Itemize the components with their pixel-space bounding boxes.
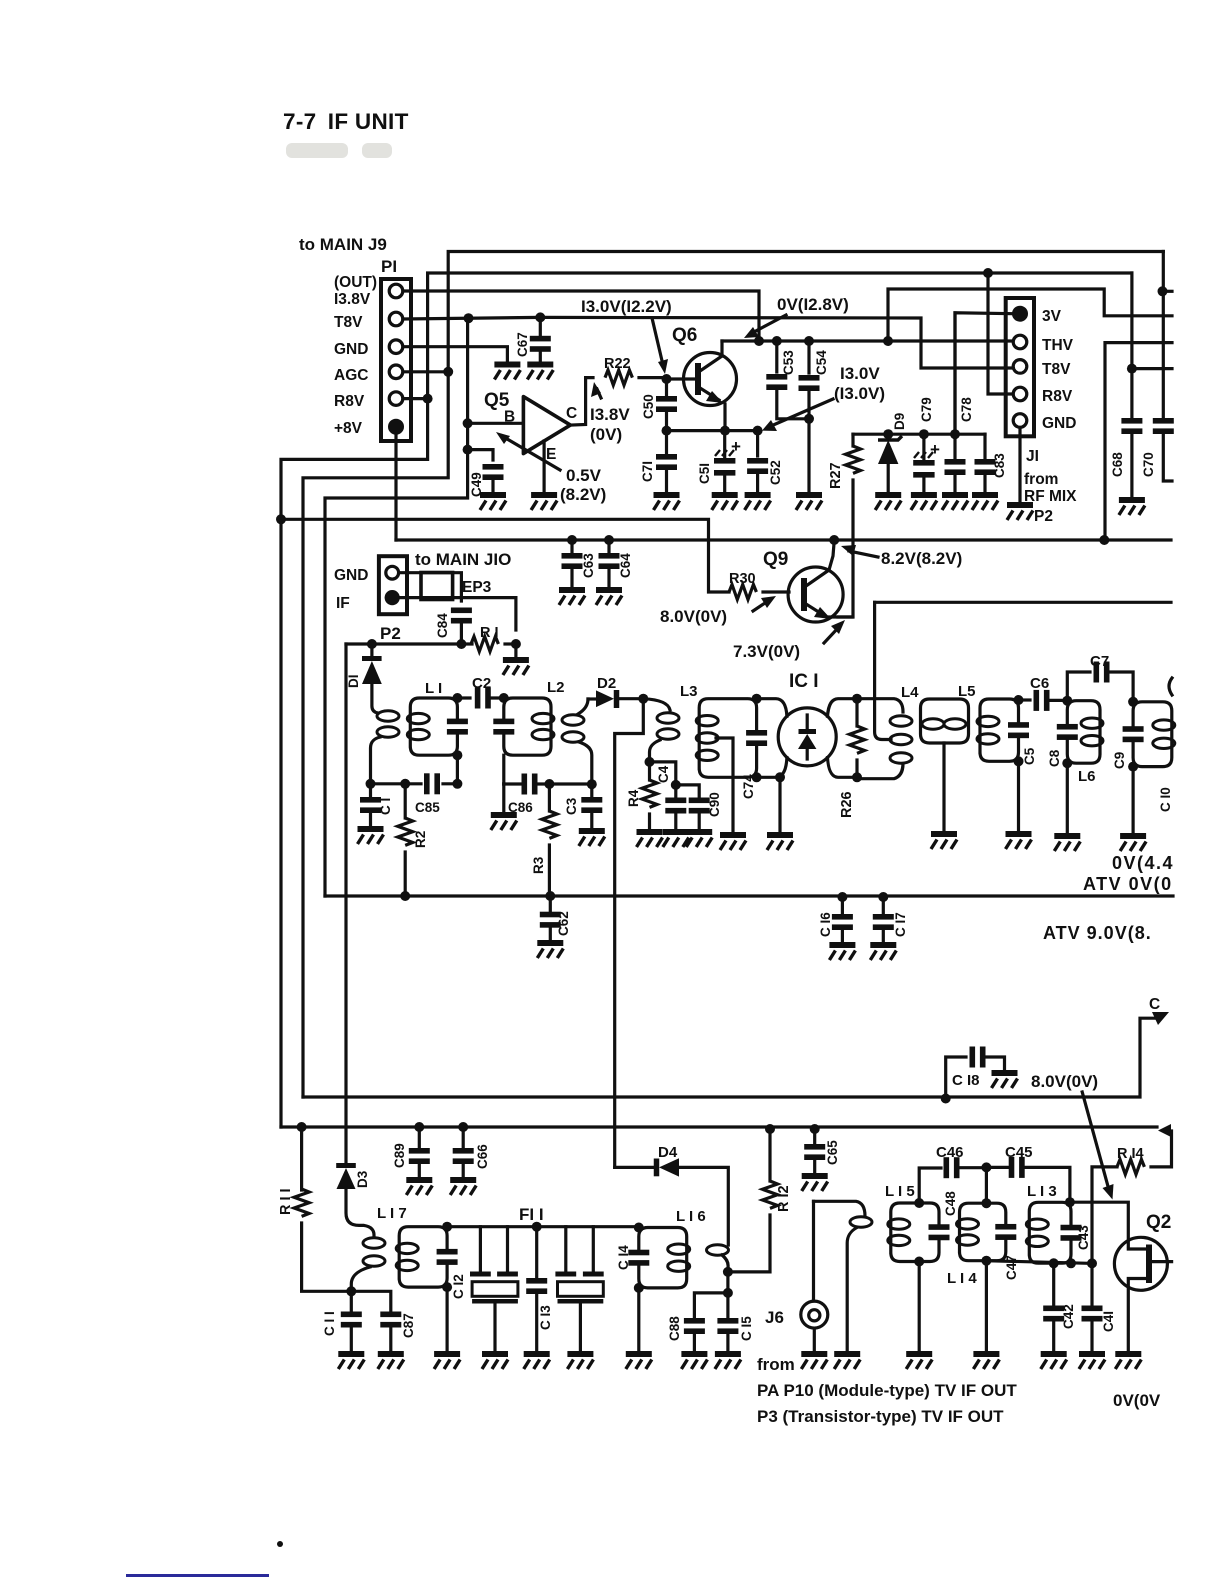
capacitor C90 bbox=[676, 785, 699, 798]
svg-text:8.0V(0V): 8.0V(0V) bbox=[1031, 1072, 1098, 1091]
svg-text:0V(0V: 0V(0V bbox=[1113, 1391, 1161, 1410]
capacitor C83 bbox=[983, 434, 986, 460]
svg-text:(8.2V): (8.2V) bbox=[560, 485, 606, 504]
svg-text:R8V: R8V bbox=[1042, 388, 1073, 405]
wire R8V lower bus line bbox=[281, 1125, 1157, 1128]
capacitor C53 bbox=[775, 341, 778, 372]
connector J6 bbox=[812, 1201, 815, 1301]
svg-text:C84: C84 bbox=[435, 613, 450, 638]
svg-text:C88: C88 bbox=[667, 1316, 682, 1341]
F11 resonator 1 bbox=[480, 1227, 507, 1271]
bus line1 top (AGC net) bbox=[448, 252, 1163, 372]
inductor L4 winding bbox=[857, 699, 903, 779]
svg-text:Q2: Q2 bbox=[1146, 1212, 1171, 1233]
capacitor C62 bbox=[549, 896, 552, 912]
wire Q5 output to R22 bbox=[570, 378, 593, 426]
resistor R11 bbox=[297, 1122, 307, 1132]
ground tap below IC1 left bbox=[778, 777, 781, 832]
node dot AGC bus bbox=[443, 367, 453, 377]
svg-text:D3: D3 bbox=[355, 1170, 370, 1188]
transformer L3 tank with C74 bbox=[699, 699, 756, 778]
svg-text:P3 (Transistor-type) TV IF OUT: P3 (Transistor-type) TV IF OUT bbox=[757, 1407, 1004, 1426]
svg-text:C62: C62 bbox=[556, 911, 571, 936]
diode D1 bbox=[370, 644, 373, 656]
P1 pin 2 T8V bbox=[389, 312, 403, 326]
capacitor C79 electrolytic bbox=[922, 434, 925, 460]
P1 pin 1 (OUT)13.8V bbox=[389, 284, 403, 298]
svg-text:E: E bbox=[546, 446, 556, 463]
svg-text:L I 7: L I 7 bbox=[377, 1205, 407, 1222]
svg-text:I3.0V(I2.2V): I3.0V(I2.2V) bbox=[581, 297, 672, 316]
svg-text:C53: C53 bbox=[781, 350, 796, 375]
wire C49 branch bbox=[468, 450, 493, 460]
svg-text:C4: C4 bbox=[656, 765, 671, 783]
bus line2 (R8V net) bbox=[428, 273, 1132, 399]
svg-text:R22: R22 bbox=[604, 356, 631, 372]
svg-text:I3.0V: I3.0V bbox=[840, 364, 880, 383]
svg-text:+: + bbox=[731, 437, 741, 456]
diode D2 bbox=[596, 690, 614, 707]
svg-text:C89: C89 bbox=[392, 1143, 407, 1168]
svg-text:C4I: C4I bbox=[1101, 1311, 1116, 1332]
capacitor C89 bbox=[414, 1122, 424, 1132]
wire IF pin through EP3 bbox=[400, 598, 516, 630]
svg-text:J6: J6 bbox=[765, 1308, 784, 1327]
svg-text:L I 6: L I 6 bbox=[676, 1208, 706, 1225]
capacitor C78 bbox=[953, 313, 956, 460]
svg-text:FI I: FI I bbox=[519, 1205, 544, 1224]
svg-text:PI: PI bbox=[381, 257, 397, 276]
L1 primary coil bbox=[377, 711, 399, 721]
node dot T8V/B-bus bbox=[464, 313, 474, 323]
svg-text:L6: L6 bbox=[1078, 768, 1096, 785]
wire L2 to D2 bbox=[588, 697, 596, 700]
ground bus bottom of IF row bbox=[325, 894, 1173, 897]
wire gate line to Q2 bbox=[1070, 1202, 1128, 1246]
L15 primary coil bbox=[814, 1201, 866, 1216]
capacitor C68 bbox=[1130, 273, 1133, 417]
svg-text:R I I: R I I bbox=[278, 1188, 294, 1215]
svg-text:C: C bbox=[1149, 996, 1160, 1013]
svg-text:L2: L2 bbox=[547, 679, 565, 696]
connector J1 body bbox=[1006, 298, 1034, 436]
transformer L6 tank with C8 bbox=[1067, 701, 1100, 764]
capacitor C3 bbox=[590, 784, 593, 797]
capacitor C17 bbox=[882, 897, 885, 914]
svg-text:C87: C87 bbox=[401, 1313, 416, 1338]
wire GND pin through EP3 bbox=[399, 573, 461, 601]
transformer tank with C5 bbox=[980, 699, 1019, 761]
svg-text:R I2: R I2 bbox=[776, 1185, 792, 1212]
svg-text:ATV 9.0V(8.: ATV 9.0V(8. bbox=[1043, 923, 1152, 943]
svg-text:to MAIN J9: to MAIN J9 bbox=[299, 235, 387, 254]
capacitor C50 bbox=[665, 379, 668, 396]
svg-text:C70: C70 bbox=[1141, 452, 1156, 477]
transistor Q9 bbox=[788, 567, 843, 622]
svg-text:D2: D2 bbox=[597, 675, 616, 692]
P1 pin 5 R8V bbox=[389, 392, 403, 406]
svg-text:R30: R30 bbox=[729, 571, 756, 587]
capacitor C67 bbox=[539, 317, 542, 335]
capacitor C7 bbox=[1067, 672, 1090, 701]
svg-text:+8V: +8V bbox=[334, 420, 363, 437]
svg-text:C: C bbox=[566, 405, 577, 422]
svg-text:D9: D9 bbox=[892, 413, 907, 430]
partial coil at right edge bbox=[1169, 678, 1172, 695]
wire L4 center tap to output line bbox=[875, 602, 891, 739]
resistor R1 bbox=[346, 642, 472, 645]
capacitor C46 bbox=[919, 1168, 941, 1203]
capacitor C1 bbox=[369, 784, 372, 797]
svg-text:Q6: Q6 bbox=[672, 325, 697, 346]
resistor R4 bbox=[648, 762, 651, 780]
svg-text:C3: C3 bbox=[564, 797, 579, 815]
svg-text:0.5V: 0.5V bbox=[566, 466, 602, 485]
L5 ground tap bbox=[942, 743, 945, 831]
node dots L3 bbox=[752, 694, 762, 704]
L3 grounded tap bbox=[716, 738, 733, 832]
wire AGC lower bus line bbox=[303, 1018, 1156, 1097]
J1 pin 3V (filled) bbox=[1012, 306, 1028, 322]
svg-text:C I4: C I4 bbox=[616, 1245, 631, 1270]
svg-text:T8V: T8V bbox=[1042, 361, 1071, 378]
svg-text:C7I: C7I bbox=[640, 461, 655, 482]
J1 pin R8V bbox=[1013, 387, 1027, 401]
svg-text:C5I: C5I bbox=[697, 463, 712, 484]
svg-text:C5: C5 bbox=[1022, 747, 1037, 765]
wire pin4 AGC bbox=[403, 370, 448, 373]
svg-text:0V(I2.8V): 0V(I2.8V) bbox=[777, 295, 849, 314]
svg-text:I3.8V: I3.8V bbox=[334, 291, 371, 308]
svg-text:7.3V(0V): 7.3V(0V) bbox=[733, 642, 800, 661]
J1 pin GND bbox=[1013, 414, 1027, 428]
capacitor C13 bbox=[532, 1222, 542, 1232]
svg-text:C8: C8 bbox=[1047, 749, 1062, 767]
capacitor C15 bbox=[726, 1293, 729, 1317]
svg-text:C I8: C I8 bbox=[952, 1072, 980, 1089]
transformer L2 tank bbox=[504, 698, 551, 755]
resistor R22 bbox=[605, 370, 632, 385]
svg-text:to MAIN JIO: to MAIN JIO bbox=[415, 550, 511, 569]
svg-text:C54: C54 bbox=[814, 350, 829, 375]
svg-text:3V: 3V bbox=[1042, 308, 1062, 325]
capacitor C70 bbox=[1162, 252, 1165, 418]
wire 3V pin to C78 node bbox=[955, 313, 1013, 434]
svg-text:C66: C66 bbox=[475, 1144, 490, 1169]
capacitor C45 bbox=[986, 1166, 1008, 1169]
wire +8V pin down to 8V rail corner bbox=[394, 434, 397, 540]
L16 primary coil bbox=[679, 1167, 728, 1245]
wire pin1 13.8V out to Q6 collector riser bbox=[403, 291, 759, 341]
diode D4 bbox=[615, 1166, 654, 1169]
svg-text:Q9: Q9 bbox=[763, 549, 788, 570]
transformer tank with C9 bbox=[1133, 702, 1172, 767]
svg-text:L4: L4 bbox=[901, 684, 919, 701]
svg-text:L I 3: L I 3 bbox=[1027, 1183, 1057, 1200]
svg-text:from: from bbox=[757, 1355, 795, 1374]
capacitor C63 bbox=[570, 540, 573, 555]
svg-text:C45: C45 bbox=[1005, 1144, 1033, 1161]
svg-text:C I: C I bbox=[378, 798, 393, 815]
svg-text:R4: R4 bbox=[626, 789, 641, 807]
wire R8V bus down-left bbox=[281, 399, 428, 1127]
op-amp Q5 triangle bbox=[523, 397, 570, 454]
wire Q6 collector line 0V(12.8V) to THV bbox=[722, 339, 1013, 342]
svg-text:C83: C83 bbox=[992, 453, 1007, 478]
node dot C49 branch bbox=[463, 445, 473, 455]
transformer L15 tank with C48 bbox=[891, 1203, 939, 1262]
P2 pin IF (filled) bbox=[385, 590, 400, 605]
node dot B wire bbox=[463, 418, 473, 428]
svg-text:C6: C6 bbox=[1030, 675, 1049, 692]
capacitor C11 bbox=[350, 1291, 353, 1311]
svg-text:C67: C67 bbox=[515, 332, 530, 357]
svg-text:C64: C64 bbox=[618, 553, 633, 578]
L3 primary coil bbox=[643, 699, 670, 710]
ground rail C86/R3/C3 bbox=[504, 782, 521, 785]
node line D9/C79/C78/C83 bbox=[853, 433, 985, 436]
wire base to Q6 bbox=[667, 377, 697, 380]
node dot R22/Q6 base bbox=[662, 374, 672, 384]
svg-text:C65: C65 bbox=[825, 1140, 840, 1165]
P2 pin GND bbox=[386, 566, 399, 579]
svg-text:8.2V(8.2V): 8.2V(8.2V) bbox=[881, 549, 962, 568]
svg-text:R27: R27 bbox=[828, 462, 844, 489]
svg-text:C I7: C I7 bbox=[893, 912, 908, 937]
svg-text:GND: GND bbox=[334, 341, 368, 358]
svg-text:D4: D4 bbox=[658, 1144, 678, 1161]
capacitor C84 bbox=[451, 608, 472, 624]
arrow to C (page edge) bbox=[1152, 1012, 1169, 1025]
svg-text:C68: C68 bbox=[1110, 452, 1125, 477]
ferrite bead EP3 bbox=[421, 573, 453, 600]
P1 pin 4 AGC bbox=[389, 365, 403, 379]
svg-text:GND: GND bbox=[1042, 415, 1076, 432]
svg-text:DI: DI bbox=[346, 675, 361, 689]
IC1 bbox=[778, 708, 836, 766]
svg-text:I3.8V: I3.8V bbox=[590, 405, 630, 424]
wire pin3 GND to ground bbox=[403, 347, 507, 362]
svg-text:C7: C7 bbox=[1090, 653, 1109, 670]
arrowhead on bus end bbox=[1158, 1124, 1171, 1137]
F11 resonator 2 bbox=[566, 1227, 594, 1271]
svg-text:R8V: R8V bbox=[334, 393, 365, 410]
resistor R14 bbox=[1092, 1167, 1117, 1264]
svg-text:R26: R26 bbox=[839, 791, 855, 818]
wire right stub from THV-line corner bbox=[1105, 343, 1172, 540]
svg-text:B: B bbox=[504, 409, 515, 426]
connector P1 body bbox=[381, 279, 411, 441]
wire Q5 emitter to ground bbox=[542, 441, 545, 492]
P1 pin 6 +8V (filled) bbox=[388, 419, 404, 435]
transformer L13 tank with C43 bbox=[1029, 1202, 1071, 1263]
node dots emitter rail bbox=[662, 426, 672, 436]
svg-text:C48: C48 bbox=[943, 1191, 958, 1216]
svg-text:C I5: C I5 bbox=[739, 1316, 754, 1341]
capacitor C64 bbox=[607, 540, 610, 555]
wire pin5 R8V bbox=[403, 397, 428, 400]
svg-text:R I4: R I4 bbox=[1117, 1146, 1144, 1162]
svg-text:AGC: AGC bbox=[334, 367, 368, 384]
capacitor C42 bbox=[1049, 1258, 1059, 1268]
P1 pin 3 GND bbox=[389, 340, 403, 354]
svg-text:C2: C2 bbox=[472, 675, 491, 692]
node dot T8V/C67 bbox=[535, 312, 545, 322]
capacitor C54 bbox=[807, 341, 810, 373]
svg-text:(0V): (0V) bbox=[590, 425, 622, 444]
svg-text:L5: L5 bbox=[958, 683, 976, 700]
capacitor C49 bbox=[483, 464, 504, 480]
svg-text:L3: L3 bbox=[680, 683, 698, 700]
svg-text:C I6: C I6 bbox=[818, 912, 833, 937]
wire +8V rail (8.2V net) bbox=[396, 538, 1171, 541]
capacitor C18 bbox=[941, 1094, 951, 1104]
wire emitter rail bbox=[667, 429, 758, 432]
transformer L14 tank with C47 bbox=[960, 1203, 1006, 1261]
svg-text:EP3: EP3 bbox=[462, 579, 492, 596]
transistor Q6 bbox=[684, 353, 737, 406]
ground rail C1/C85/R2 bbox=[371, 782, 422, 785]
svg-text:0V(4.4: 0V(4.4 bbox=[1112, 853, 1174, 873]
svg-text:C50: C50 bbox=[641, 394, 656, 419]
svg-text:L I: L I bbox=[425, 680, 442, 697]
svg-text:R2: R2 bbox=[413, 831, 428, 848]
resistor R2 bbox=[404, 784, 407, 818]
svg-text:C46: C46 bbox=[936, 1144, 964, 1161]
wire IC1 output line to right edge bbox=[875, 601, 1171, 604]
resistor R26 bbox=[855, 699, 858, 726]
IC1 funnels bbox=[757, 699, 857, 778]
svg-text:L I 4: L I 4 bbox=[947, 1270, 977, 1287]
svg-text:T8V: T8V bbox=[334, 314, 363, 331]
svg-text:C I I: C I I bbox=[322, 1311, 337, 1336]
wire left bus to L17 via D3 bbox=[344, 644, 347, 1162]
L2 secondary coil bbox=[562, 715, 584, 725]
zener diode D9 bbox=[887, 434, 890, 438]
wire Q5 B bus down-left bbox=[325, 318, 468, 896]
J1 pin T8V bbox=[1013, 360, 1027, 374]
wire AGC bus down-left bbox=[303, 372, 448, 1097]
wire D2 node down to D4 bbox=[615, 699, 644, 1168]
svg-text:8.0V(0V): 8.0V(0V) bbox=[660, 607, 727, 626]
J1 pin THV bbox=[1013, 335, 1027, 349]
transistor Q2 (FET) bbox=[1114, 1237, 1167, 1290]
svg-text:PA P10 (Module-type) TV IF OUT: PA P10 (Module-type) TV IF OUT bbox=[757, 1381, 1017, 1400]
svg-text:(OUT): (OUT) bbox=[334, 274, 377, 291]
L17 primary coil bbox=[346, 1189, 374, 1235]
inductor L5 bbox=[921, 699, 969, 743]
svg-text:C85: C85 bbox=[415, 800, 440, 815]
capacitor C51 electrolytic bbox=[723, 431, 726, 458]
wire GND pin to ground bbox=[1018, 428, 1021, 503]
transformer L17 tank with C12 bbox=[399, 1227, 447, 1287]
resistor R30 bbox=[729, 585, 756, 600]
transformer L16 tank with C14 bbox=[639, 1228, 687, 1288]
faint title smudge bbox=[286, 143, 348, 158]
svg-text:C I2: C I2 bbox=[451, 1274, 466, 1299]
resistor R3 bbox=[548, 784, 551, 811]
svg-text:ATV 0V(0: ATV 0V(0 bbox=[1083, 874, 1173, 894]
svg-text:C9: C9 bbox=[1112, 752, 1127, 769]
node dot R8V bus bbox=[423, 394, 433, 404]
capacitor C88 bbox=[694, 1293, 728, 1317]
svg-text:7-7 IF UNIT: 7-7 IF UNIT bbox=[283, 109, 409, 134]
capacitor C87 bbox=[351, 1291, 391, 1311]
svg-text:C90: C90 bbox=[707, 792, 722, 817]
svg-text:JI: JI bbox=[1026, 448, 1039, 465]
svg-text:R I: R I bbox=[480, 625, 499, 641]
svg-text:IC I: IC I bbox=[789, 671, 819, 692]
svg-text:C52: C52 bbox=[768, 460, 783, 485]
svg-text:C42: C42 bbox=[1061, 1304, 1076, 1329]
filter F11 top wire bbox=[447, 1225, 639, 1228]
capacitor C52 bbox=[756, 431, 759, 456]
capacitor C65 bbox=[810, 1124, 820, 1134]
svg-text:L I 5: L I 5 bbox=[885, 1183, 915, 1200]
stray dot mark bbox=[277, 1541, 283, 1547]
capacitor C71 bbox=[665, 431, 668, 454]
resistor R12 bbox=[765, 1124, 775, 1134]
svg-text:C63: C63 bbox=[581, 553, 596, 578]
svg-text:C I0: C I0 bbox=[1158, 787, 1173, 812]
diode D3 bbox=[336, 1163, 356, 1168]
wire base line to Q5 bbox=[468, 422, 523, 425]
svg-text:C49: C49 bbox=[469, 472, 484, 497]
svg-text:from: from bbox=[1024, 471, 1058, 488]
wire pin2 T8V long line to x921 then down to J1 T8V bbox=[403, 317, 1013, 368]
svg-text:GND: GND bbox=[334, 567, 368, 584]
svg-text:IF: IF bbox=[336, 595, 350, 612]
svg-text:C43: C43 bbox=[1076, 1225, 1091, 1250]
blue pen underline bbox=[126, 1574, 269, 1577]
node dots L1 bbox=[452, 693, 462, 703]
svg-text:C79: C79 bbox=[919, 397, 934, 422]
svg-text:THV: THV bbox=[1042, 337, 1074, 354]
wire AGC line to R30 bbox=[281, 519, 729, 592]
svg-text:P2: P2 bbox=[1034, 508, 1053, 525]
wire THV branch up-right stub bbox=[888, 289, 1172, 341]
connector P2 body bbox=[379, 556, 407, 614]
capacitor C41 bbox=[1087, 1258, 1097, 1268]
capacitor C2 bbox=[457, 696, 470, 699]
capacitor C16 bbox=[841, 897, 844, 914]
wire R8V pin left and up to R8V bus bbox=[988, 273, 1013, 394]
svg-text:C78: C78 bbox=[959, 397, 974, 422]
capacitor C66 bbox=[458, 1122, 468, 1132]
svg-text:C47: C47 bbox=[1004, 1255, 1019, 1280]
ground below C86 node bbox=[502, 784, 505, 812]
svg-text:P2: P2 bbox=[380, 624, 401, 643]
svg-text:C I3: C I3 bbox=[538, 1305, 553, 1330]
svg-text:(I3.0V): (I3.0V) bbox=[834, 384, 885, 403]
transformer L1 tank bbox=[410, 698, 457, 755]
capacitor C4 bbox=[650, 762, 676, 785]
capacitor C6 bbox=[1019, 698, 1031, 701]
resistor R27 bbox=[851, 434, 854, 446]
ground at P1 GND bbox=[494, 365, 520, 380]
bottom rail to C41 bbox=[986, 1261, 1092, 1264]
svg-text:+: + bbox=[930, 440, 940, 459]
svg-text:R3: R3 bbox=[531, 856, 546, 874]
